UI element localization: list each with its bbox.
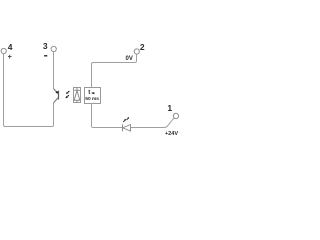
- indicator LED D2: [123, 124, 131, 131]
- svg-text:2: 2: [140, 42, 145, 52]
- wire from phototransistor emitter along bottom loop to terminal 4: [4, 54, 54, 127]
- terminal 2: [134, 49, 139, 54]
- timer block K1 (50 ms delay): [85, 88, 101, 104]
- wire from timer block bottom down and right to LED: [92, 104, 123, 128]
- terminal 4: [1, 48, 6, 53]
- wire from LED right to terminal 1: [131, 118, 174, 128]
- svg-text:1: 1: [167, 103, 172, 113]
- svg-text:4: 4: [8, 42, 13, 52]
- LED light emission arrows: [123, 117, 129, 122]
- polarity label -: [44, 55, 47, 57]
- svg-text:+24V: +24V: [165, 131, 178, 137]
- svg-text:50 ms: 50 ms: [85, 96, 99, 102]
- terminal 3: [51, 46, 56, 51]
- phototransistor Q1: [54, 89, 59, 103]
- optocoupler LED D1 in box: [74, 88, 81, 103]
- svg-text:+: +: [8, 52, 12, 61]
- svg-text:0V: 0V: [126, 56, 133, 62]
- svg-text:3: 3: [43, 41, 48, 51]
- wire from terminal 2 down and left to top of timer block: [92, 54, 137, 88]
- wire from terminal 3 down to phototransistor collector: [53, 52, 55, 89]
- terminal 1: [173, 113, 178, 118]
- optocoupler light arrows (pointing at Q1): [65, 91, 69, 98]
